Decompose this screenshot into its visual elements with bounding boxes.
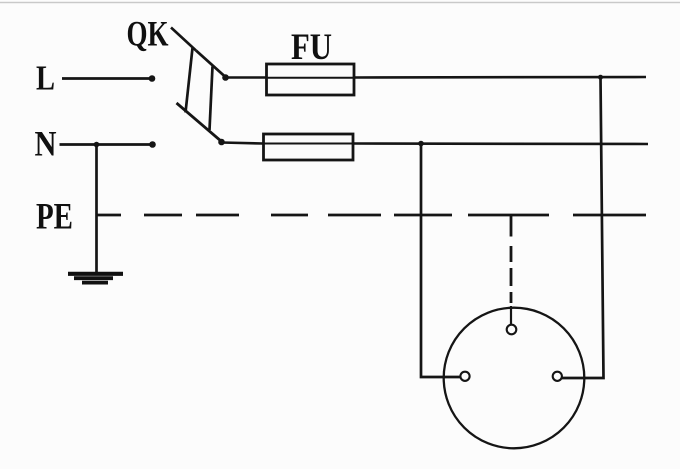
socket terminal PE (top): [507, 325, 517, 335]
wire switch to fuse bottom: [222, 143, 264, 144]
switch QK pole-2 blade: [177, 103, 222, 142]
socket terminal N (left): [460, 372, 469, 381]
wire PE dashed segment 4: [328, 214, 381, 217]
switch QK linkage bar right: [210, 67, 213, 131]
wire PE dashed drop segment 1: [510, 246, 513, 262]
wire L to right bus: [354, 76, 646, 79]
fuse FU (L line) body: [267, 64, 355, 95]
ground earth symbol bar 2: [74, 276, 113, 280]
wire through fuse FU top: [267, 77, 355, 79]
wire PE dashed segment 5: [394, 214, 452, 217]
ground earth symbol bar 1: [68, 272, 123, 276]
switch QK pole-1 contact dot: [222, 74, 229, 81]
wire PE dashed segment 3: [271, 214, 308, 217]
wire through fuse FU bottom: [264, 143, 354, 145]
socket XS outline: [444, 308, 585, 449]
node L fixed contact dot: [149, 75, 156, 82]
wire PE dashed segment 2: [196, 214, 239, 217]
wire PE dashed drop segment 3: [510, 292, 513, 303]
wire switch to fuse FU top: [226, 76, 267, 79]
junction N to earth drop: [94, 142, 100, 148]
switch QK pole-1 blade: [196, 51, 226, 78]
switch QK linkage bar left: [186, 48, 193, 113]
switch QK pole-2 contact dot: [218, 139, 225, 146]
wire PE dashed segment 7: [573, 214, 646, 217]
scan artifact top edge (decorative): [0, 2, 680, 4]
svg-text:L: L: [36, 59, 55, 98]
svg-text:FU: FU: [291, 27, 332, 68]
svg-text:PE: PE: [36, 197, 73, 238]
wire PE dashed segment 1: [144, 214, 182, 217]
wire L input: [62, 77, 152, 80]
wire PE dashed drop stub: [510, 215, 513, 237]
fuse FU (N line) body: [264, 134, 354, 160]
wire PE dashed drop segment 2: [510, 268, 513, 286]
svg-text:N: N: [35, 124, 57, 164]
wire PE junction stub: [97, 214, 122, 217]
socket terminal L (right): [553, 372, 562, 381]
wire N input: [60, 143, 153, 146]
wire PE dashed segment 6: [468, 214, 549, 217]
node N fixed contact dot: [149, 141, 156, 148]
svg-text:QK: QK: [127, 14, 169, 54]
junction N drop to socket: [418, 141, 424, 147]
ground earth symbol bar 3: [82, 281, 108, 285]
switch QK leader line: [171, 28, 196, 51]
wire N to right: [353, 142, 648, 145]
junction L right bus: [598, 75, 603, 80]
wire N-PE earth drop: [95, 145, 98, 275]
wire N drop to socket left terminal: [421, 144, 461, 378]
wire PE lead inside socket: [510, 306, 512, 324]
wire L drop to socket right terminal: [562, 77, 604, 378]
